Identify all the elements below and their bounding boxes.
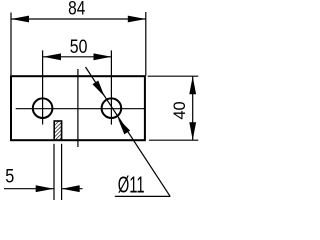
dim 5 line left — [4, 188, 54, 190]
left hole center line vertical — [42, 50, 44, 124]
dim 50 arrow left — [43, 53, 61, 60]
hatched slot section — [54, 121, 61, 140]
leader line for hole diameter — [86, 67, 171, 196]
right hole center line vertical — [110, 50, 112, 124]
leader arrow lower (points at hole edge) — [118, 118, 130, 134]
vertical center line of plate — [77, 69, 79, 147]
dim 40 extension line top — [148, 75, 199, 77]
dim 40 extension line bottom — [149, 139, 198, 141]
dim 5 extension line left — [53, 144, 55, 200]
dim 5 arrow right — [62, 185, 80, 192]
dim 40 arrow up — [189, 76, 196, 94]
svg-text:84: 84 — [68, 0, 85, 19]
plate outline — [11, 76, 145, 140]
hole left — [33, 98, 53, 118]
hole right — [102, 98, 122, 118]
dim 84 arrow left — [11, 16, 29, 23]
dim 84 extension line right — [145, 12, 147, 76]
dim 5 arrow left — [36, 185, 54, 192]
dim 50 line — [43, 56, 112, 58]
svg-text:50: 50 — [70, 35, 88, 57]
svg-text:5: 5 — [5, 165, 14, 187]
leader arrow upper (points at hole edge) — [93, 81, 105, 97]
dim 40 arrow down — [189, 122, 196, 140]
dim 5 line right — [62, 188, 83, 190]
dim 84 line — [11, 18, 146, 20]
svg-text:40: 40 — [171, 101, 189, 119]
leader underline — [115, 195, 170, 197]
horizontal center line through holes — [16, 108, 145, 110]
dim 84 extension line left — [10, 13, 12, 76]
dim 40 line — [192, 76, 194, 140]
dim 50 arrow right — [94, 53, 112, 60]
svg-text:Ø11: Ø11 — [118, 172, 145, 198]
dim 5 extension line right — [61, 144, 63, 200]
dim 84 arrow right — [128, 16, 146, 23]
